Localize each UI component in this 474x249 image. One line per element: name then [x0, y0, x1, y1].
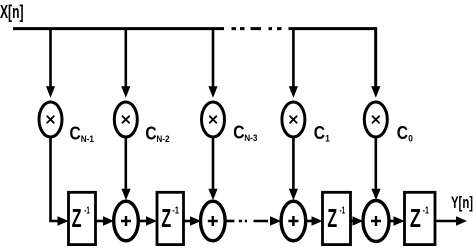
svg-text:C: C [314, 123, 325, 143]
svg-text:N-2: N-2 [156, 134, 169, 144]
svg-text:X[n]: X[n] [0, 2, 24, 22]
svg-text:-1: -1 [423, 205, 429, 217]
svg-text:C: C [397, 123, 408, 143]
svg-text:Z: Z [410, 203, 421, 233]
svg-text:0: 0 [408, 133, 413, 143]
svg-text:N-3: N-3 [244, 133, 257, 143]
svg-text:-1: -1 [172, 205, 179, 217]
svg-text:C: C [70, 124, 81, 144]
svg-text:C: C [233, 123, 244, 143]
svg-text:C: C [145, 124, 156, 144]
svg-text:-1: -1 [340, 205, 346, 217]
svg-text:N-1: N-1 [81, 134, 94, 144]
svg-text:1: 1 [325, 133, 330, 143]
svg-text:Z: Z [327, 203, 337, 233]
svg-text:-1: -1 [84, 205, 90, 217]
svg-text:Y[n]: Y[n] [451, 193, 473, 212]
svg-text:Z: Z [161, 203, 171, 233]
svg-text:Z: Z [72, 203, 82, 233]
